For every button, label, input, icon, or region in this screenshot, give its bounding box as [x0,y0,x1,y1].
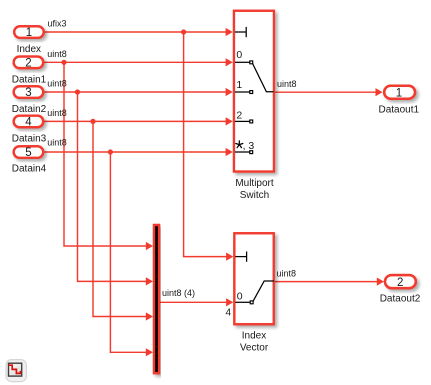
arrow into switch input 3 [226,148,233,156]
inport 4 Datain3 [12,116,47,145]
wire branch Index to Index Vector control [184,32,227,257]
svg-text:Index: Index [17,44,41,55]
arrow into Mux input 1 [146,242,153,250]
svg-text:3: 3 [25,87,31,99]
arrowheads at block inputs [146,28,384,357]
arrow into Index Vector data input [226,298,233,306]
svg-text:uint8: uint8 [47,79,67,89]
arrow into switch input 0 [226,58,233,66]
svg-text:Datain4: Datain4 [12,164,47,175]
switch pin 0 [235,61,253,64]
switch pin 2 [235,120,253,123]
svg-text:uint8 (4): uint8 (4) [162,288,195,298]
svg-text:uint8: uint8 [277,269,297,279]
wire Mux output to Index Vector input [160,301,227,303]
Mux block [154,225,159,373]
wire branch Datain2 to Mux input 2 [78,92,148,281]
Index Vector block U2 [234,233,273,324]
wire branch Datain4 to Mux input 4 [110,152,147,352]
svg-text:2: 2 [236,110,242,122]
svg-text:Switch: Switch [240,190,269,201]
switch control pin T symbol [235,27,246,37]
svg-text:uint8: uint8 [47,137,67,147]
switch pin 1 [235,91,253,94]
arrow into Mux input 2 [146,277,153,285]
svg-text:uint8: uint8 [47,49,67,59]
svg-text:uint8: uint8 [47,108,67,118]
arrow into Index Vector control [226,253,233,261]
Index Vector arm [253,281,274,301]
arrow into switch control [226,28,233,36]
arrow into Dataout1 [376,88,383,96]
svg-text:Datain2: Datain2 [12,104,47,115]
svg-text:Datain3: Datain3 [12,133,47,144]
wire Index Vector output to Dataout2 [275,281,378,283]
arrow into switch input 2 [226,117,233,125]
node junction on Datain3 wire [90,119,95,124]
wire Datain2 to switch input 1 [45,91,228,93]
svg-text:1: 1 [396,87,402,99]
node junction on Datain2 wire [75,89,80,94]
outport 1 Dataout1 [379,86,420,116]
svg-text:0: 0 [236,49,242,61]
svg-text:Dataout1: Dataout1 [379,105,420,116]
svg-text:4: 4 [225,307,231,318]
node junction on Datain1 wire [61,60,66,65]
svg-text:Multiport: Multiport [235,178,274,189]
arrow into Dataout2 [377,278,384,286]
inport 3 Datain2 [12,86,47,115]
wire Datain3 to switch input 2 [45,120,228,122]
wire branch Datain1 to Mux input 1 [64,62,147,246]
svg-text:uint8: uint8 [277,79,297,89]
inport 5 Datain4 [12,146,47,174]
wire from Index inport to Multiport Switch control [45,31,228,33]
arrow into switch input 1 [226,88,233,96]
svg-text:2: 2 [25,58,31,70]
svg-text:5: 5 [25,147,31,159]
switch arm [253,63,274,91]
svg-text:, 3: , 3 [243,140,255,152]
svg-text:ufix3: ufix3 [48,19,67,29]
wire Datain4 to switch input *,3 [45,151,228,153]
Index Vector control pin T symbol [235,252,246,262]
svg-text:Dataout2: Dataout2 [380,294,421,305]
svg-text:Index: Index [242,331,266,342]
svg-text:4: 4 [25,117,32,129]
outport 2 Dataout2 [380,275,421,304]
svg-text:0: 0 [237,291,243,303]
svg-text:1: 1 [26,27,32,39]
svg-text:2: 2 [397,277,403,289]
node junction on Index wire [181,29,186,34]
switch pin *,3 star [236,141,243,148]
arrow into Mux input 4 [146,348,153,356]
node junction on Datain4 wire [108,149,113,154]
Multiport Switch block U1 [234,11,274,172]
inport 1 Index [14,26,44,55]
sample time legend icon [6,360,26,382]
inport 2 Datain1 [12,57,47,86]
wire Datain1 to switch input 0 [45,61,228,63]
svg-text:1: 1 [236,79,242,91]
wire branch Datain3 to Mux input 3 [93,121,147,316]
arrow into Mux input 3 [146,312,153,320]
svg-text:Vector: Vector [240,342,269,353]
wire Multiport Switch output to Dataout1 [275,91,378,93]
Index Vector pin 0 [235,301,253,304]
svg-text:Datain1: Datain1 [12,75,47,86]
